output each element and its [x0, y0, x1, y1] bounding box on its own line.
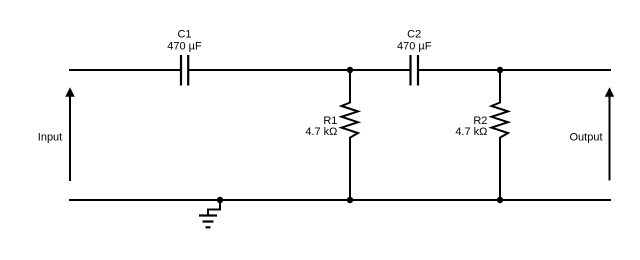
svg-text:470 µF: 470 µF — [397, 40, 432, 52]
svg-text:4.7 kΩ: 4.7 kΩ — [305, 126, 337, 138]
svg-text:C1: C1 — [177, 29, 191, 41]
svg-text:C2: C2 — [407, 29, 421, 41]
svg-text:Output: Output — [569, 131, 602, 143]
svg-text:470 µF: 470 µF — [167, 40, 202, 52]
svg-text:R2: R2 — [473, 115, 487, 127]
svg-text:Input: Input — [38, 131, 62, 143]
svg-text:R1: R1 — [323, 115, 337, 127]
svg-text:4.7 kΩ: 4.7 kΩ — [455, 126, 487, 138]
